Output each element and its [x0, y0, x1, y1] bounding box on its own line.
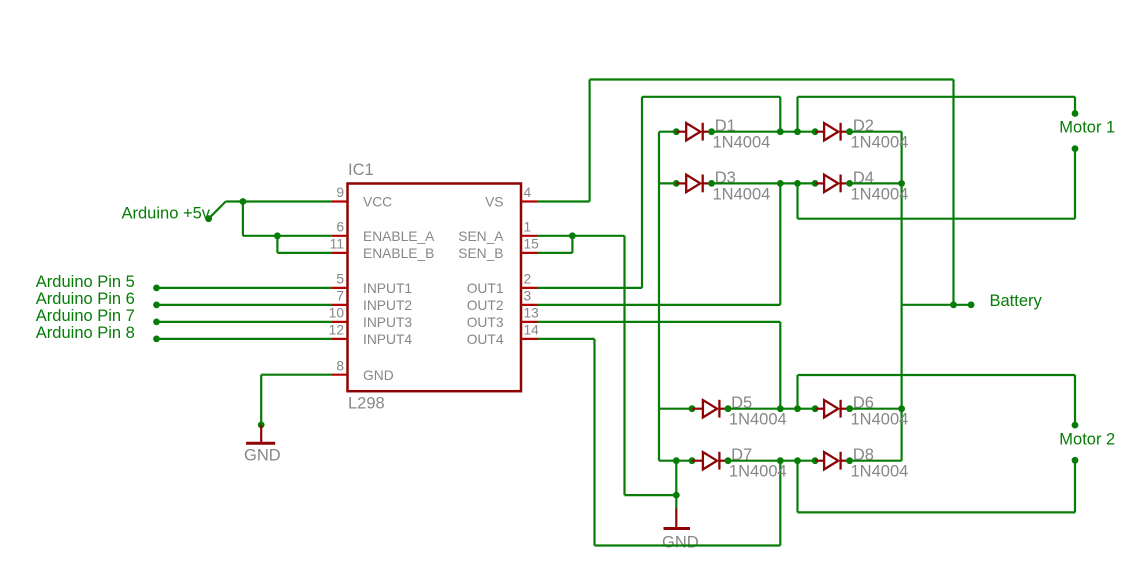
wire +5v to pin 6: [243, 235, 331, 237]
svg-text:1N4004: 1N4004: [729, 411, 787, 429]
pin 2 stub (OUT1): [521, 287, 538, 289]
junction cathode rail at D6 row: [898, 405, 905, 412]
junction at left GND symbol: [258, 422, 265, 429]
wire SEN riser down: [623, 236, 625, 495]
terminal dot motor1 plus: [1072, 110, 1079, 117]
wire motor1 top drop: [1074, 97, 1076, 114]
diode D3: [676, 175, 711, 193]
diode D7: [692, 452, 728, 470]
wire OUT4 bottom horizontal: [595, 544, 781, 546]
junction mid-left on D5 row: [777, 405, 784, 412]
wire SEN_B drop: [571, 236, 573, 253]
wire OUT3 drop to D5 row: [779, 322, 781, 409]
svg-text:VCC: VCC: [363, 195, 392, 210]
svg-text:3: 3: [524, 289, 532, 304]
junction mid-right on D1 row: [794, 128, 801, 135]
wire motor2 bottom riser to D7 row: [796, 461, 798, 513]
junction cathode rail at D4 row: [898, 180, 905, 187]
svg-text:15: 15: [524, 237, 540, 252]
pin 11 stub (ENABLE_B): [331, 252, 347, 254]
wire motor1 bottom riser to D3 row: [796, 183, 798, 218]
svg-text:1N4004: 1N4004: [851, 411, 909, 429]
terminal dot motor2 plus: [1072, 422, 1079, 429]
wire motor2 top horizontal: [798, 374, 1076, 376]
pin 6 stub (ENABLE_A): [331, 235, 347, 237]
wire D4 row right segment: [850, 182, 902, 184]
diode D8: [815, 452, 850, 470]
terminal dot motor2 minus: [1072, 457, 1079, 464]
wire motor1 bottom horizontal: [798, 218, 1076, 220]
junction +5v at ENABLE_A row: [274, 232, 281, 239]
junction D5 cathode: [725, 405, 732, 412]
pin 10 stub (INPUT3): [331, 321, 347, 323]
svg-text:Arduino +5v: Arduino +5v: [122, 205, 211, 223]
ground symbol left: bar: [246, 442, 275, 445]
wire Arduino Pin 6 to IC: [157, 304, 332, 306]
wire motor2 branch down to D5 row: [796, 375, 798, 409]
diode D6: [815, 400, 850, 418]
wire motor2 top drop: [1074, 375, 1076, 425]
wire battery drop: [952, 80, 954, 305]
svg-text:1: 1: [524, 220, 532, 235]
wire anode rail vertical: [658, 132, 660, 461]
wire +5v drop to ENABLE_B: [276, 236, 278, 253]
wire D7 row middle segment: [728, 460, 815, 462]
junction mid-left on D3 row: [777, 180, 784, 187]
wire D8 row right segment: [850, 460, 902, 462]
svg-text:1N4004: 1N4004: [851, 134, 909, 152]
svg-text:13: 13: [524, 306, 540, 321]
terminal dot Arduino Pin 5: [153, 285, 160, 292]
svg-text:14: 14: [524, 323, 540, 338]
svg-text:1N4004: 1N4004: [851, 185, 909, 203]
pin 13 stub (OUT3): [521, 321, 538, 323]
svg-text:OUT3: OUT3: [467, 315, 504, 330]
junction D7 cathode: [725, 457, 732, 464]
junction D1 anode: [673, 128, 680, 135]
pin 5 stub (INPUT1): [331, 287, 347, 289]
svg-text:5: 5: [336, 272, 344, 287]
wire OUT3 from pin 13: [538, 321, 781, 323]
svg-text:Arduino Pin 8: Arduino Pin 8: [36, 324, 135, 342]
junction D2 cathode: [846, 128, 853, 135]
diode D4: [815, 175, 850, 193]
ground symbol left: stem: [260, 425, 262, 443]
pin 1 stub (SEN_A): [521, 235, 538, 237]
terminal dot Arduino Pin 6: [153, 302, 160, 309]
diode D5: [692, 400, 728, 418]
wire +5v to pin 11: [277, 252, 331, 254]
svg-text:VS: VS: [485, 195, 503, 210]
junction D4 anode: [812, 180, 819, 187]
wire OUT1 top horizontal: [642, 96, 780, 98]
wire D1 row left segment: [659, 131, 676, 133]
terminal dot Arduino Pin 7: [153, 319, 160, 326]
wire OUT2 riser up to D3 row: [779, 183, 781, 305]
wire ground junction up to D7 row: [675, 461, 677, 495]
wire motor2 bottom horizontal: [798, 511, 1076, 513]
pin 9 stub (VCC): [331, 200, 347, 202]
svg-text:Battery: Battery: [990, 292, 1043, 310]
junction D7 row ground tap: [673, 457, 680, 464]
svg-text:GND: GND: [662, 534, 699, 552]
svg-text:INPUT2: INPUT2: [363, 298, 412, 313]
svg-text:11: 11: [330, 237, 344, 252]
wire cathode rail vertical: [900, 132, 902, 461]
wire D3 row left segment: [659, 182, 676, 184]
junction D1 cathode: [708, 128, 715, 135]
svg-text:Arduino Pin 7: Arduino Pin 7: [36, 307, 135, 325]
svg-text:INPUT1: INPUT1: [363, 281, 412, 296]
wire OUT4 from pin 14: [538, 338, 595, 340]
junction D2 anode: [812, 128, 819, 135]
svg-text:ENABLE_B: ENABLE_B: [363, 246, 434, 261]
wire OUT1 riser up: [641, 97, 643, 288]
wire +5v to pin 9: [226, 200, 332, 202]
terminal dot motor1 minus: [1072, 145, 1079, 152]
svg-text:INPUT3: INPUT3: [363, 315, 412, 330]
svg-text:1N4004: 1N4004: [851, 463, 909, 481]
wire VS pin to riser: [538, 200, 590, 202]
wire D6 row right segment: [850, 408, 902, 410]
svg-text:L298: L298: [348, 395, 385, 413]
wire GND pin 8 vertical: [260, 375, 262, 425]
junction battery: [950, 301, 957, 308]
wire VS riser up: [588, 80, 590, 202]
wire VS top horizontal: [590, 78, 954, 80]
junction D3 cathode: [708, 180, 715, 187]
svg-text:ENABLE_A: ENABLE_A: [363, 229, 435, 244]
svg-text:INPUT4: INPUT4: [363, 332, 412, 347]
junction mid-right on D7 row: [794, 457, 801, 464]
wire ground junction to symbol: [675, 495, 677, 508]
wire OUT2 from pin 3: [538, 304, 781, 306]
svg-text:OUT4: OUT4: [467, 332, 504, 347]
diode D2: [815, 123, 850, 141]
svg-text:SEN_A: SEN_A: [458, 229, 504, 244]
wire Arduino Pin 5 to IC: [157, 287, 332, 289]
junction mid-left on D7 row: [777, 457, 784, 464]
diode D1: [676, 123, 711, 141]
pin 4 stub (VS): [521, 200, 538, 202]
junction SEN: [569, 232, 576, 239]
svg-text:7: 7: [336, 289, 344, 304]
svg-text:Motor 1: Motor 1: [1059, 118, 1115, 136]
wire D5 row left segment: [659, 408, 692, 410]
svg-text:8: 8: [336, 358, 344, 373]
wire motor1 bottom drop: [1074, 149, 1076, 219]
wire motor1 branch down to D1 row: [796, 97, 798, 132]
wire D7 row left segment: [659, 460, 692, 462]
junction at right GND: [673, 492, 680, 499]
wire motor2 bottom drop: [1074, 460, 1076, 512]
wire D3 row middle segment: [712, 182, 816, 184]
svg-text:1N4004: 1N4004: [729, 463, 787, 481]
pin 7 stub (INPUT2): [331, 304, 347, 306]
junction mid-right on D3 row: [794, 180, 801, 187]
pin 12 stub (INPUT4): [331, 338, 347, 340]
terminal dot Arduino Pin 8: [153, 336, 160, 343]
svg-text:9: 9: [336, 185, 344, 200]
wire battery terminal: [954, 304, 972, 306]
IC IC1 L298 body outline: [348, 184, 522, 392]
wire motor1 top horizontal: [798, 96, 1076, 98]
wire SEN_A from pin 1: [538, 235, 625, 237]
svg-text:OUT2: OUT2: [467, 298, 504, 313]
wire D2 row right segment: [850, 131, 902, 133]
wire +5v drop to ENABLE_A: [242, 202, 244, 236]
svg-text:10: 10: [329, 306, 345, 321]
junction D6 anode: [812, 405, 819, 412]
ground symbol right: stem: [675, 509, 677, 529]
junction D7 anode: [689, 457, 696, 464]
svg-text:1N4004: 1N4004: [713, 134, 771, 152]
wire Arduino Pin 7 to IC: [157, 321, 332, 323]
svg-text:GND: GND: [244, 446, 281, 464]
wire GND pin 8 horizontal: [261, 374, 331, 376]
wire OUT4 riser up to D7 row: [779, 461, 781, 546]
wire SEN_B to pin 15: [538, 252, 573, 254]
pin 3 stub (OUT2): [521, 304, 538, 306]
pin 15 stub (SEN_B): [521, 252, 538, 254]
junction D3 anode: [673, 180, 680, 187]
junction mid-left on D1 row: [777, 128, 784, 135]
svg-text:1N4004: 1N4004: [713, 185, 771, 203]
svg-text:12: 12: [329, 323, 344, 338]
pin 14 stub (OUT4): [521, 338, 538, 340]
wire D1 row middle segment: [712, 131, 816, 133]
wire battery branch from cathode rail: [902, 304, 954, 306]
terminal dot Arduino +5v: [205, 215, 212, 222]
ground symbol right: bar: [664, 527, 691, 530]
svg-text:Motor 2: Motor 2: [1059, 430, 1115, 448]
junction D5 anode: [689, 405, 696, 412]
wire D5 row middle segment: [728, 408, 815, 410]
junction +5v at VCC row: [240, 198, 247, 205]
wire +5v diagonal: [209, 202, 226, 219]
pin 8 stub (GND): [331, 374, 347, 376]
wire Arduino Pin 8 to IC: [157, 338, 332, 340]
junction D6 cathode: [846, 405, 853, 412]
terminal dot battery: [968, 301, 975, 308]
svg-text:6: 6: [336, 220, 344, 235]
wire OUT1 from pin 2: [538, 287, 643, 289]
svg-text:IC1: IC1: [348, 161, 374, 179]
svg-text:Arduino Pin 6: Arduino Pin 6: [36, 290, 135, 308]
wire SEN to ground junction: [625, 494, 677, 496]
junction D4 cathode: [846, 180, 853, 187]
svg-text:Arduino Pin 5: Arduino Pin 5: [36, 273, 135, 291]
svg-text:OUT1: OUT1: [467, 281, 504, 296]
svg-text:SEN_B: SEN_B: [458, 246, 503, 261]
wire OUT1 drop to D1 row: [779, 97, 781, 132]
svg-text:GND: GND: [363, 368, 394, 383]
junction D8 cathode: [846, 457, 853, 464]
svg-text:2: 2: [524, 272, 532, 287]
svg-text:4: 4: [524, 185, 532, 200]
junction mid-right on D5 row: [794, 405, 801, 412]
junction D8 anode: [812, 457, 819, 464]
wire OUT4 riser down: [593, 339, 595, 546]
